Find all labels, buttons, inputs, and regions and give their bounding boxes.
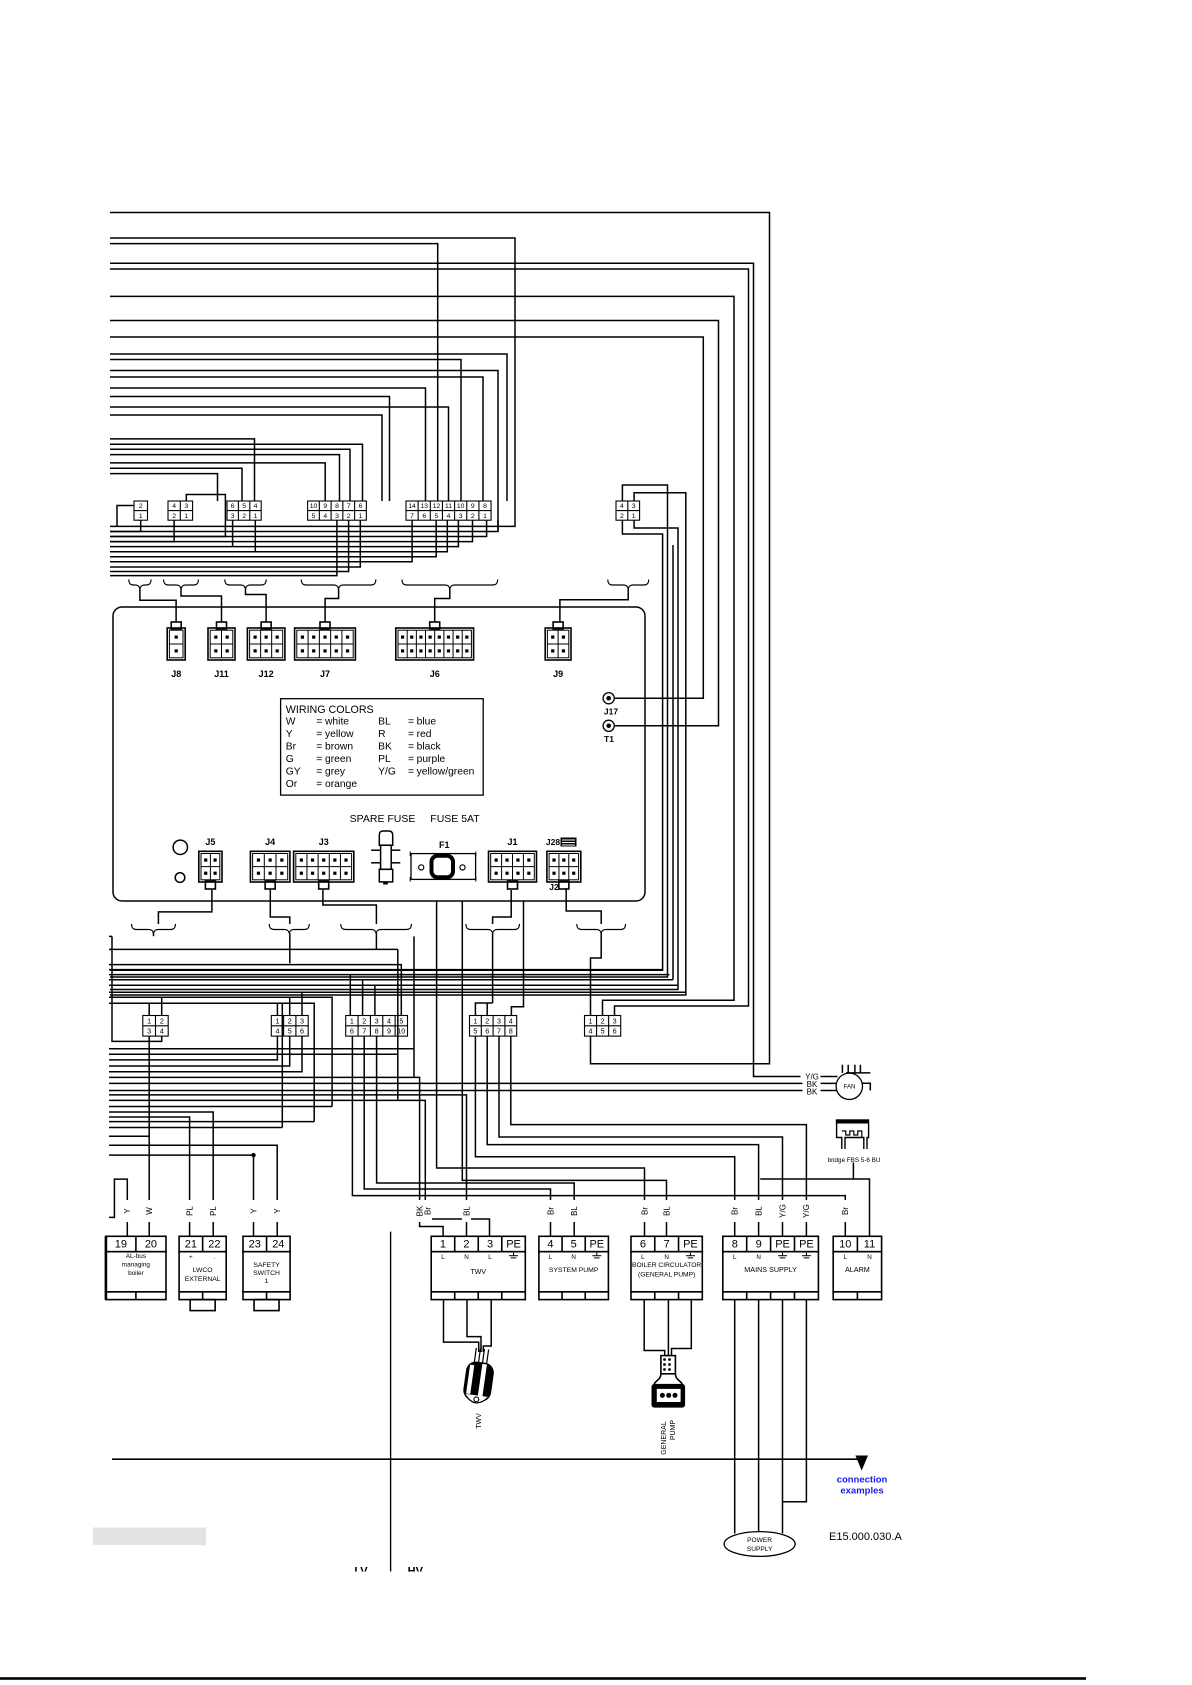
wire J2 stub xyxy=(566,888,601,924)
svg-text:L: L xyxy=(641,1254,645,1261)
svg-text:brown: brown xyxy=(325,742,353,753)
svg-text:8: 8 xyxy=(335,503,339,510)
wire connection examples line xyxy=(112,1458,862,1460)
brace group J9 xyxy=(608,580,649,589)
svg-text:J4: J4 xyxy=(265,837,275,847)
svg-text:1: 1 xyxy=(265,1278,269,1285)
wire brace to J7 xyxy=(325,589,339,623)
svg-text:13: 13 xyxy=(420,503,428,510)
svg-text:yellow/green: yellow/green xyxy=(417,767,475,778)
wire fan YG right seg xyxy=(821,1076,838,1078)
svg-text:1: 1 xyxy=(440,1239,446,1251)
wire box C pin3 tap xyxy=(374,985,376,1015)
wire X6 pin2 route xyxy=(110,520,663,970)
label Y wire xyxy=(273,1200,282,1222)
svg-text:5: 5 xyxy=(434,513,438,520)
wire top 2 (turn down x515) xyxy=(110,238,515,526)
svg-text:4: 4 xyxy=(160,1027,164,1036)
svg-text:PE: PE xyxy=(683,1239,698,1251)
wire top 8 (to right bus x703.3 - J17) xyxy=(110,337,703,698)
wire top 3 (turn down x437.7) xyxy=(110,244,438,501)
svg-text:=: = xyxy=(316,729,322,740)
svg-text:=: = xyxy=(408,754,414,765)
svg-text:red: red xyxy=(417,729,432,740)
wire brace to J12 xyxy=(246,589,267,623)
wire group a2 xyxy=(110,444,363,501)
terminal header D xyxy=(470,1016,517,1037)
wire top bus 1 (to right bus x770) xyxy=(110,213,770,1064)
svg-text:F1: F1 xyxy=(439,840,450,850)
wire bundle2 line 5 xyxy=(110,520,447,552)
svg-text:white: white xyxy=(324,716,349,727)
svg-text:3: 3 xyxy=(487,1239,493,1251)
svg-text:Y/G: Y/G xyxy=(378,767,396,778)
svg-text:7: 7 xyxy=(497,1027,501,1036)
wire brace E down xyxy=(591,933,602,1016)
connector J11 xyxy=(208,622,235,660)
svg-text:24: 24 xyxy=(272,1239,284,1251)
label Br wire xyxy=(640,1200,649,1222)
svg-text:4: 4 xyxy=(254,503,258,510)
svg-text:4: 4 xyxy=(387,1016,391,1025)
svg-text:+: + xyxy=(189,1254,193,1261)
wire J4 stub xyxy=(270,890,290,924)
svg-text:5: 5 xyxy=(242,503,246,510)
wire J3 stub xyxy=(323,890,377,924)
wire alarm Br (10) xyxy=(352,1036,845,1236)
wire mid m6 xyxy=(109,979,673,981)
label Br wire xyxy=(841,1200,850,1222)
terminal block mains supply xyxy=(723,1236,819,1299)
svg-text:L: L xyxy=(488,1254,492,1261)
svg-text:J9: J9 xyxy=(553,669,563,679)
terminal header E xyxy=(585,1016,621,1037)
terminal block alarm xyxy=(833,1236,881,1299)
wire top 11 xyxy=(110,371,498,532)
bridge FBS 5-6 BU xyxy=(836,1119,869,1123)
svg-text:4: 4 xyxy=(323,513,327,520)
mounting hole xyxy=(173,840,187,854)
wire boiler BL (7) xyxy=(462,901,666,1236)
bottom rule xyxy=(0,1677,1086,1680)
connector J9 xyxy=(545,622,571,660)
pad T1 xyxy=(603,720,614,731)
svg-text:J7: J7 xyxy=(320,669,330,679)
svg-text:3: 3 xyxy=(185,503,189,510)
svg-text:.: . xyxy=(214,1254,216,1261)
connector J4 xyxy=(250,851,290,889)
svg-text:5: 5 xyxy=(288,1027,292,1036)
svg-text:J3: J3 xyxy=(319,837,329,847)
terminal header A xyxy=(143,1016,168,1037)
svg-text:PL: PL xyxy=(185,1206,194,1216)
wire group a7 xyxy=(110,474,218,501)
svg-text:4: 4 xyxy=(447,513,451,520)
svg-text:=: = xyxy=(408,716,414,727)
svg-text:2: 2 xyxy=(471,513,475,520)
terminal block 19 20 AL-bus xyxy=(106,1236,166,1299)
wire mains Br (8) xyxy=(475,1036,734,1236)
wire top 4 (to right bus x753.5 - fan Y/G) xyxy=(110,263,801,1076)
svg-text:yellow: yellow xyxy=(325,729,354,740)
connector J2 xyxy=(547,851,581,889)
wire bundle2 line 3 xyxy=(110,520,473,541)
wire brace B down xyxy=(289,933,291,963)
svg-text:12: 12 xyxy=(433,503,441,510)
svg-text:SPARE FUSE: SPARE FUSE xyxy=(350,813,416,825)
wire mid m0a xyxy=(109,936,398,949)
svg-text:10: 10 xyxy=(397,1027,405,1036)
svg-text:J2: J2 xyxy=(549,882,559,892)
svg-text:N: N xyxy=(664,1254,669,1261)
wire box D cell1 feed xyxy=(475,1003,492,1016)
wire BL to TWV 2 xyxy=(109,1095,467,1236)
terminal block boiler circulator xyxy=(631,1236,702,1299)
wire mains YG PE a xyxy=(499,1036,783,1236)
label Br wire xyxy=(730,1200,739,1222)
svg-text:3: 3 xyxy=(147,1027,151,1036)
wire PL to 21 xyxy=(109,1117,190,1236)
svg-text:J8: J8 xyxy=(171,669,181,679)
svg-text:connection: connection xyxy=(837,1475,888,1486)
svg-text:8: 8 xyxy=(375,1027,379,1036)
wire ml b xyxy=(109,1121,314,1123)
svg-text:23: 23 xyxy=(249,1239,261,1251)
svg-text:ALARM: ALARM xyxy=(845,1265,870,1274)
label Y wire xyxy=(123,1200,132,1222)
wire bundle2 line 10 xyxy=(110,520,337,575)
connector J12 xyxy=(247,622,285,660)
svg-text:SYSTEM PUMP: SYSTEM PUMP xyxy=(549,1267,599,1274)
svg-text:BL: BL xyxy=(378,716,391,727)
svg-text:boiler: boiler xyxy=(128,1270,145,1277)
svg-text:PL: PL xyxy=(209,1206,218,1216)
svg-text:Y/G: Y/G xyxy=(778,1204,787,1218)
arrow connection examples xyxy=(855,1456,868,1471)
svg-text:9: 9 xyxy=(471,503,475,510)
svg-text:W: W xyxy=(145,1207,154,1215)
svg-text:EXTERNAL: EXTERNAL xyxy=(185,1276,221,1283)
svg-text:6: 6 xyxy=(359,503,363,510)
svg-text:PE: PE xyxy=(589,1239,604,1251)
svg-text:examples: examples xyxy=(840,1486,883,1497)
wire bundle2 line 7 xyxy=(110,520,412,562)
svg-text:22: 22 xyxy=(208,1239,220,1251)
label PL wire xyxy=(185,1200,194,1222)
wire bus mid 5th xyxy=(672,545,674,980)
svg-text:6: 6 xyxy=(613,1027,617,1036)
svg-text:Y: Y xyxy=(286,729,293,740)
svg-text:4: 4 xyxy=(547,1239,553,1251)
svg-text:7: 7 xyxy=(410,513,414,520)
svg-text:1: 1 xyxy=(147,1016,151,1025)
svg-text:L: L xyxy=(441,1254,445,1261)
wire J5 stub xyxy=(158,890,212,924)
svg-text:L: L xyxy=(733,1254,737,1261)
wire TWV to valve xyxy=(444,1300,492,1352)
svg-text:N: N xyxy=(867,1254,872,1261)
wire box A pin3 down (W) xyxy=(148,1036,150,1236)
wire mains BL (9) xyxy=(487,1036,758,1236)
label Y/G wire xyxy=(778,1200,787,1222)
svg-text:LWCO: LWCO xyxy=(193,1267,213,1274)
svg-text:FAN: FAN xyxy=(843,1084,855,1091)
wire ml d xyxy=(109,1135,149,1137)
wire LV HV divider xyxy=(390,1232,392,1572)
svg-text:20: 20 xyxy=(145,1239,157,1251)
svg-text:19: 19 xyxy=(115,1239,127,1251)
svg-text:BL: BL xyxy=(570,1206,579,1216)
wire boiler block to pump xyxy=(644,1300,691,1356)
svg-text:purple: purple xyxy=(417,754,446,765)
svg-text:POWER: POWER xyxy=(747,1537,772,1544)
brace cable D xyxy=(466,924,520,933)
svg-text:8: 8 xyxy=(732,1239,738,1251)
terminal block 23 24 safety switch xyxy=(243,1236,290,1310)
wire PL to 22 xyxy=(109,1112,213,1236)
svg-text:TWV: TWV xyxy=(476,1413,483,1429)
wire Y to 23 xyxy=(109,1155,254,1236)
svg-text:=: = xyxy=(408,767,414,778)
svg-text:Br: Br xyxy=(423,1207,432,1215)
svg-text:4: 4 xyxy=(589,1027,593,1036)
wire system BL (5) xyxy=(377,1036,575,1236)
svg-text:2: 2 xyxy=(288,1016,292,1025)
svg-text:BOILER CIRCULATOR: BOILER CIRCULATOR xyxy=(632,1262,701,1269)
wire boiler Br (6) xyxy=(437,901,645,1236)
brace cable A xyxy=(132,924,176,933)
wire top 14 xyxy=(110,397,390,502)
svg-text:3: 3 xyxy=(459,513,463,520)
svg-text:=: = xyxy=(316,779,322,790)
general pump connector symbol xyxy=(654,1356,682,1384)
wire J1 stub xyxy=(493,890,512,924)
terminal header B xyxy=(271,1016,308,1037)
wiring colors legend box xyxy=(281,699,484,795)
wire X6 pin4 route xyxy=(110,485,668,977)
wire ml c xyxy=(109,1127,282,1129)
label Y wire xyxy=(249,1200,258,1222)
label Br wire xyxy=(423,1200,432,1222)
svg-text:N: N xyxy=(571,1254,576,1261)
svg-text:=: = xyxy=(316,742,322,753)
wire bundle2 line 8 xyxy=(110,520,360,567)
svg-text:L: L xyxy=(549,1254,553,1261)
wire bundle2 line 4 xyxy=(110,520,458,546)
wire group a5 xyxy=(110,463,325,501)
wire bundle2 line 9 xyxy=(110,520,349,571)
wire mains YG PE b xyxy=(511,1036,807,1236)
svg-text:1: 1 xyxy=(589,1016,593,1025)
svg-text:SWITCH: SWITCH xyxy=(253,1270,280,1277)
svg-text:2: 2 xyxy=(347,513,351,520)
wire top 15 xyxy=(110,407,449,501)
wire brace C down xyxy=(375,933,377,949)
svg-text:black: black xyxy=(417,742,442,753)
svg-text:=: = xyxy=(316,716,322,727)
wire bundle2 line 6 xyxy=(110,520,436,557)
wire group a3 xyxy=(110,449,350,501)
svg-text:1: 1 xyxy=(185,513,189,520)
wire bridge to alarm 11 xyxy=(760,1163,869,1237)
svg-text:6: 6 xyxy=(231,503,235,510)
svg-text:4: 4 xyxy=(509,1016,513,1025)
wire group a4 xyxy=(110,455,340,501)
wire top 6 (to right bus x734 - box E pin2) xyxy=(110,296,734,1015)
svg-text:3: 3 xyxy=(335,513,339,520)
wire X3 pin drops xyxy=(233,520,256,552)
svg-text:2: 2 xyxy=(601,1016,605,1025)
svg-text:3: 3 xyxy=(613,1016,617,1025)
wire box C pin2 tap xyxy=(362,980,364,1016)
wire mains to power supply xyxy=(735,1300,807,1534)
fan outlet xyxy=(846,1073,870,1091)
terminal header C xyxy=(346,1016,408,1037)
svg-text:8: 8 xyxy=(483,503,487,510)
brace cable B xyxy=(269,924,309,933)
connector J6 xyxy=(396,622,474,660)
connector J5 xyxy=(199,851,222,889)
svg-text:BL: BL xyxy=(754,1206,763,1216)
wire fan BK 1 xyxy=(109,1082,837,1084)
svg-text:PE: PE xyxy=(775,1239,790,1251)
svg-text:8: 8 xyxy=(509,1027,513,1036)
connector J7 xyxy=(295,622,356,660)
svg-text:J1: J1 xyxy=(507,837,517,847)
svg-text:J17: J17 xyxy=(604,707,618,717)
svg-text:1: 1 xyxy=(350,1016,354,1025)
wire box B pin4 xyxy=(109,1036,277,1060)
connector J1 xyxy=(489,851,537,889)
wire top 5 (to right bus x748.5 - box E pin3) xyxy=(110,269,749,1016)
svg-text:6: 6 xyxy=(422,513,426,520)
J28 icon xyxy=(561,838,577,847)
svg-text:managing: managing xyxy=(122,1262,151,1269)
svg-text:5: 5 xyxy=(601,1027,605,1036)
svg-text:J12: J12 xyxy=(259,669,274,679)
svg-text:(GENERAL PUMP): (GENERAL PUMP) xyxy=(638,1271,695,1278)
wire group a1 xyxy=(110,439,255,501)
wire brace to J9 xyxy=(560,589,628,623)
label W wire xyxy=(145,1200,154,1222)
wire top 13 xyxy=(110,388,426,501)
svg-text:=: = xyxy=(408,729,414,740)
fan motor xyxy=(836,1073,862,1099)
connector header X4 xyxy=(308,501,367,520)
svg-text:PE: PE xyxy=(799,1239,814,1251)
svg-text:BL: BL xyxy=(462,1206,471,1216)
svg-text:7: 7 xyxy=(362,1027,366,1036)
wire box D cell4 feed xyxy=(511,901,523,1016)
svg-text:Or: Or xyxy=(286,779,298,790)
svg-text:GENERAL: GENERAL xyxy=(661,1421,668,1455)
wire box A pin1 tap b xyxy=(148,1003,150,1015)
svg-text:SAFETY: SAFETY xyxy=(253,1262,280,1269)
svg-text:BK: BK xyxy=(378,742,392,753)
svg-text:11: 11 xyxy=(445,503,452,510)
wire top 9 xyxy=(110,354,507,501)
svg-text:BK: BK xyxy=(807,1088,818,1097)
svg-text:Br: Br xyxy=(731,1207,740,1215)
svg-text:E15.000.030.A: E15.000.030.A xyxy=(829,1531,902,1543)
svg-text:Y/G: Y/G xyxy=(802,1204,811,1218)
wire X1 pin1 down xyxy=(110,520,141,531)
wire mid m2 xyxy=(109,949,490,1236)
wire mid m7 xyxy=(109,984,678,986)
svg-text:1: 1 xyxy=(254,513,258,520)
wire top 10 xyxy=(110,360,461,502)
svg-text:6: 6 xyxy=(485,1027,489,1036)
svg-text:Br: Br xyxy=(546,1207,555,1215)
wire brace to J11 xyxy=(181,589,222,623)
svg-text:AL-bus: AL-bus xyxy=(126,1253,146,1260)
svg-text:L: L xyxy=(844,1254,848,1261)
pad J17 xyxy=(603,693,614,704)
svg-text:3: 3 xyxy=(375,1016,379,1025)
wire mid m10 xyxy=(109,1003,314,1121)
label Y/G wire xyxy=(802,1200,811,1222)
terminal block 21 22 LWCO xyxy=(179,1236,226,1310)
svg-text:10: 10 xyxy=(457,503,465,510)
svg-text:4: 4 xyxy=(620,503,624,510)
wire mid m1 xyxy=(109,936,443,1236)
wire box B pin5 xyxy=(109,1036,290,1066)
wire mid m9 xyxy=(109,997,332,1106)
svg-text:9: 9 xyxy=(387,1027,391,1036)
brace group J6 xyxy=(402,580,498,589)
brace group J8 xyxy=(129,580,151,589)
svg-text:11: 11 xyxy=(864,1239,875,1251)
svg-text:Y: Y xyxy=(249,1208,258,1214)
wire v282 xyxy=(281,1003,283,1127)
svg-text:9: 9 xyxy=(323,503,327,510)
svg-text:BL: BL xyxy=(662,1206,671,1216)
svg-text:1: 1 xyxy=(139,513,143,520)
spare fuse symbol xyxy=(371,831,400,882)
wire ml a xyxy=(109,1106,332,1108)
connector J3 xyxy=(294,851,354,889)
svg-text:2: 2 xyxy=(463,1239,469,1251)
wire brace A down xyxy=(153,933,155,936)
svg-text:SUPPLY: SUPPLY xyxy=(747,1546,773,1553)
svg-text:1: 1 xyxy=(632,513,636,520)
svg-text:TWV: TWV xyxy=(470,1269,486,1276)
label BK wire xyxy=(415,1200,424,1222)
brace group J12 xyxy=(225,580,266,589)
svg-text:Br: Br xyxy=(286,742,297,753)
svg-text:14: 14 xyxy=(408,503,416,510)
brace group J11 xyxy=(164,580,199,589)
svg-text:2: 2 xyxy=(362,1016,366,1025)
wire system Br (4) xyxy=(364,1036,550,1236)
svg-text:2: 2 xyxy=(172,513,176,520)
svg-text:Y: Y xyxy=(123,1208,132,1214)
wire left collector vertical xyxy=(112,936,162,1041)
svg-text:J6: J6 xyxy=(430,669,440,679)
svg-text:3: 3 xyxy=(231,513,235,520)
wire box B pin taps xyxy=(277,992,302,1015)
svg-text:1: 1 xyxy=(275,1016,279,1025)
connector header X6 xyxy=(616,501,640,520)
svg-text:W: W xyxy=(286,716,296,727)
wire X2 jog up xyxy=(110,495,225,537)
mounting hole small xyxy=(175,873,185,883)
label BL wire xyxy=(754,1200,763,1222)
wire mid m4 xyxy=(109,969,663,971)
brace group J7 xyxy=(301,580,376,589)
svg-text:grey: grey xyxy=(325,767,346,778)
svg-text:7: 7 xyxy=(664,1239,670,1251)
